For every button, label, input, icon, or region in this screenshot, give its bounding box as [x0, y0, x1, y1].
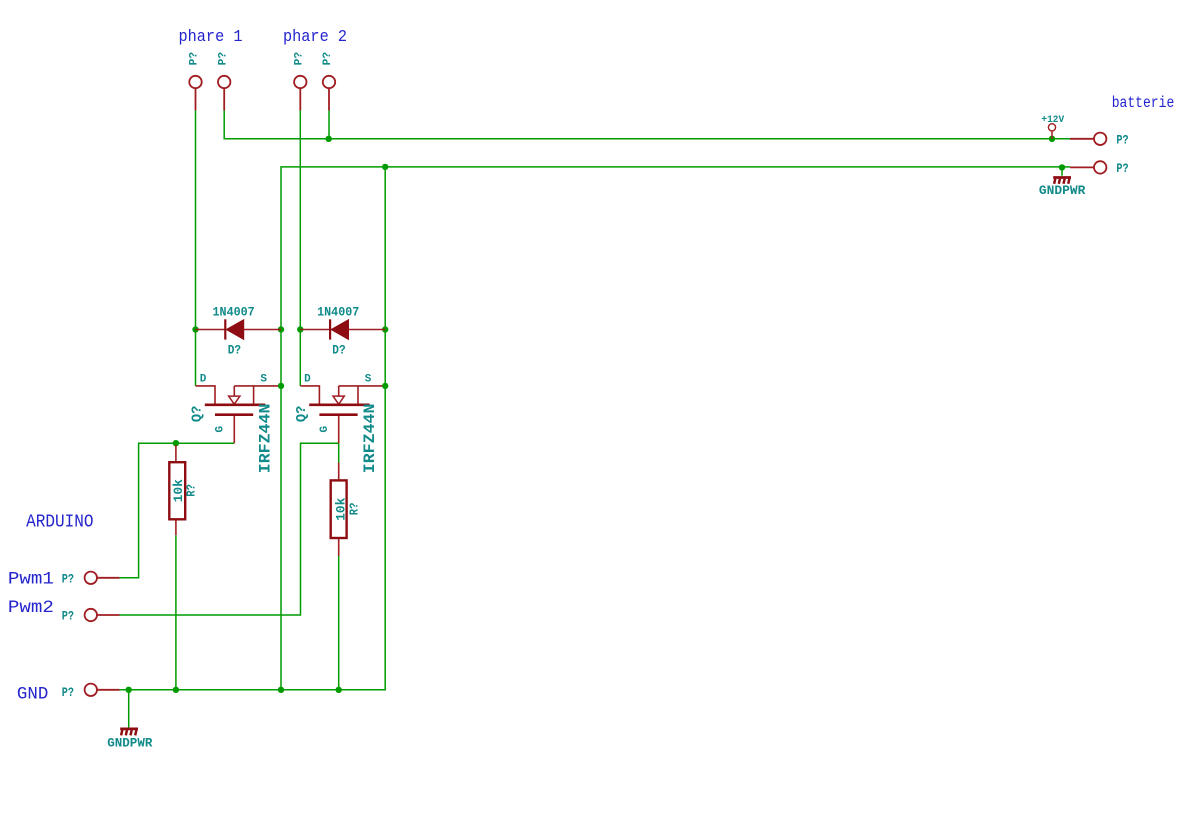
wire Q2 gate to R2	[338, 443, 340, 462]
junction D2 right	[382, 326, 388, 332]
junction R1 bottom on GND rail	[173, 687, 179, 693]
resistor R2 10k	[331, 463, 362, 556]
transistor Q2 IRFZ44N	[295, 374, 382, 474]
svg-text:IRFZ44N: IRFZ44N	[361, 404, 379, 474]
wire R1 bottom to GND rail	[175, 535, 177, 690]
junction D1 left	[192, 326, 198, 332]
wire phare2 pin4 stub to +12V rail	[328, 110, 330, 138]
svg-text:GND: GND	[17, 685, 48, 705]
svg-text:S: S	[365, 374, 372, 386]
connector P? phare1 pin1	[189, 52, 202, 111]
svg-text:1N4007: 1N4007	[213, 305, 255, 320]
svg-text:1N4007: 1N4007	[317, 305, 359, 320]
wire phare1 pin1 to D1 to Q1 drain	[195, 110, 197, 386]
svg-text:P?: P?	[62, 686, 74, 700]
svg-text:phare 1: phare 1	[179, 28, 243, 47]
ground GNDPWR at arduino GND	[107, 729, 152, 751]
junction D2 vertical on GND rail top	[382, 164, 388, 170]
wire phare2 pin3 to D2 to Q2 drain	[299, 110, 301, 386]
svg-text:S: S	[260, 374, 267, 386]
wire GND rail from Q1 source to battery	[281, 167, 1070, 690]
junction R1 top gate wire	[173, 440, 179, 446]
ground GNDPWR at battery	[1039, 178, 1086, 199]
connector P? Pwm1	[62, 572, 120, 587]
wire battery GND stub to GNDPWR	[1061, 167, 1063, 175]
connector P? phare1 pin2	[217, 52, 230, 111]
connector P? battery GND	[1070, 161, 1129, 176]
connector P? phare2 pin4	[322, 52, 335, 111]
svg-text:ARDUINO: ARDUINO	[26, 512, 93, 533]
svg-text:D?: D?	[332, 343, 345, 358]
svg-text:P?: P?	[62, 610, 74, 624]
connector P? phare2 pin3	[294, 52, 307, 111]
svg-text:GNDPWR: GNDPWR	[107, 736, 152, 751]
svg-text:batterie: batterie	[1112, 94, 1175, 112]
svg-text:P?: P?	[322, 52, 334, 66]
svg-text:D: D	[200, 374, 207, 386]
svg-text:R?: R?	[348, 503, 361, 516]
junction +12V symbol on rail	[1049, 136, 1055, 142]
svg-text:P?: P?	[189, 52, 201, 66]
svg-text:Pwm1: Pwm1	[8, 570, 54, 590]
wire R2 bottom to GND rail	[338, 556, 340, 690]
junction R2 bottom on GND rail	[336, 687, 342, 693]
junction GNDPWR on GND rail	[126, 687, 132, 693]
svg-text:P?: P?	[294, 52, 306, 66]
junction Q1 source	[278, 383, 284, 389]
wire Pwm2 to Q2 gate	[120, 443, 339, 615]
svg-text:10k: 10k	[334, 497, 349, 520]
diode D2 1N4007	[300, 305, 385, 358]
svg-text:P?: P?	[1116, 162, 1128, 176]
svg-text:10k: 10k	[171, 479, 186, 502]
svg-text:P?: P?	[1116, 133, 1128, 147]
svg-text:R?: R?	[186, 484, 199, 497]
svg-text:Q?: Q?	[191, 406, 206, 423]
junction D1 right	[278, 326, 284, 332]
transistor Q1 IRFZ44N	[191, 374, 278, 474]
junction D2 left	[297, 326, 303, 332]
svg-text:P?: P?	[217, 52, 229, 66]
svg-text:G: G	[215, 426, 227, 433]
svg-text:phare 2: phare 2	[283, 28, 347, 47]
connector P? battery +12V	[1070, 133, 1129, 148]
junction pin4 on +12V rail	[326, 136, 332, 142]
svg-text:+12V: +12V	[1041, 115, 1064, 126]
power symbol +12V	[1041, 115, 1064, 139]
junction Q1 source on GND rail	[278, 687, 284, 693]
wire Pwm1 to Q1 gate	[120, 443, 235, 578]
svg-text:Pwm2: Pwm2	[8, 598, 54, 618]
svg-text:D: D	[304, 374, 311, 386]
wire phare1 pin2 to +12V rail	[224, 110, 1070, 138]
resistor R1 10k	[169, 445, 198, 535]
diode D1 1N4007	[196, 305, 282, 358]
svg-text:Q?: Q?	[295, 406, 310, 423]
svg-text:GNDPWR: GNDPWR	[1039, 183, 1086, 198]
svg-text:IRFZ44N: IRFZ44N	[256, 404, 274, 474]
junction Q2 source	[382, 383, 388, 389]
connector P? GND	[62, 684, 120, 700]
wire Q2 source / D2 vertical to GND	[120, 167, 386, 690]
svg-text:G: G	[319, 426, 331, 433]
connector P? Pwm2	[62, 609, 120, 624]
svg-text:P?: P?	[62, 573, 74, 587]
svg-text:D?: D?	[228, 343, 241, 358]
junction battery GNDPWR	[1059, 164, 1065, 170]
wire GNDPWR stub at arduino GND	[128, 690, 130, 728]
